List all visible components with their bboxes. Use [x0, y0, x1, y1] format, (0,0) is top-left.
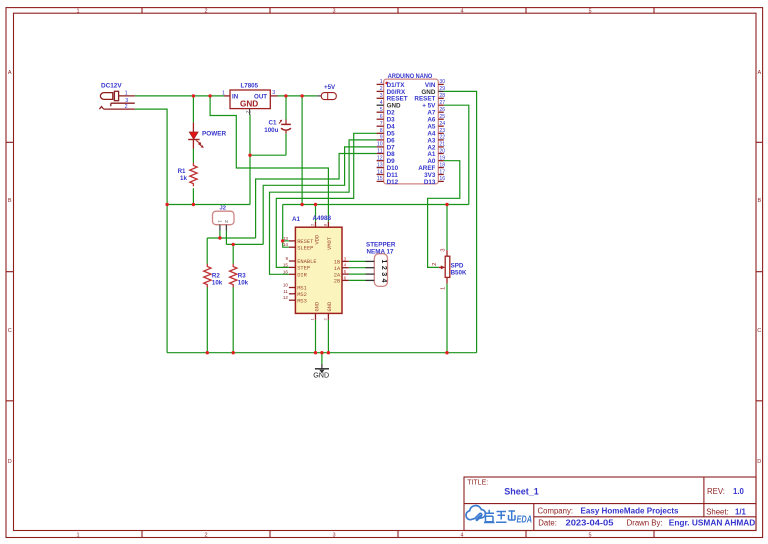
wire D5 to STEP: [276, 133, 376, 267]
wire D6 to DIR: [270, 140, 377, 274]
svg-text:2: 2: [125, 104, 128, 110]
svg-text:J2: J2: [220, 206, 226, 212]
svg-text:B: B: [8, 198, 12, 204]
arduino pin 30 VIN: [425, 79, 445, 89]
svg-text:1: 1: [125, 91, 128, 97]
svg-text:ENABLE: ENABLE: [297, 259, 316, 265]
svg-text:6: 6: [380, 114, 383, 120]
wire D7 to J2 pin2: [263, 147, 376, 245]
svg-text:Sheet:: Sheet:: [706, 508, 729, 517]
svg-text:4: 4: [344, 263, 347, 268]
svg-text:GND: GND: [327, 302, 333, 312]
wire arduino +5V pin to rail: [444, 105, 469, 204]
regulator U1 L7805: [222, 83, 278, 115]
svg-text:11: 11: [377, 148, 382, 154]
svg-text:2023-04-05: 2023-04-05: [566, 517, 614, 527]
junction top rail 5V feed: [300, 94, 303, 97]
arduino pin1 marker dot: [385, 82, 388, 85]
arduino pin 16 D13: [424, 176, 445, 186]
svg-text:Engr. USMAN AHMAD: Engr. USMAN AHMAD: [669, 518, 756, 527]
connector J2: [213, 206, 235, 231]
arduino pin 1 D1/TX: [377, 79, 406, 89]
svg-text:1.0: 1.0: [733, 487, 745, 496]
wire GND symbol stem: [321, 353, 323, 364]
stepper pin 2: [366, 266, 388, 270]
svg-text:STEP: STEP: [297, 266, 310, 272]
svg-text:1: 1: [380, 259, 387, 263]
svg-text:12: 12: [283, 295, 289, 300]
svg-text:+ 5V: + 5V: [422, 103, 436, 110]
arduino pin 19 A0: [427, 156, 445, 166]
a4988 pin DIR: [283, 269, 308, 278]
svg-text:2: 2: [245, 111, 251, 114]
svg-text:STEPPER: STEPPER: [366, 241, 396, 248]
junction top rail VMOT: [208, 94, 211, 97]
wire C1 bottom to regulator GND: [250, 134, 286, 156]
svg-text:30: 30: [439, 79, 445, 85]
arduino pin 12 D9: [377, 156, 396, 166]
svg-text:3: 3: [344, 256, 347, 261]
svg-text:3: 3: [380, 93, 383, 99]
connector P1 STEPPER NEMA17: [366, 241, 396, 286]
svg-text:D: D: [8, 459, 12, 465]
arduino pin 8 D5: [377, 128, 396, 138]
arduino pin 2 D0/RX: [377, 86, 406, 96]
svg-text:EDA: EDA: [517, 514, 533, 526]
svg-text:VMOT: VMOT: [327, 236, 333, 250]
svg-text:D: D: [757, 459, 761, 465]
svg-text:B50K: B50K: [451, 270, 467, 277]
arduino pin 10 D7: [377, 142, 396, 152]
arduino pin 29 GND: [421, 86, 445, 96]
wire left GND rail: [167, 204, 250, 206]
svg-text:A1: A1: [292, 216, 301, 223]
a4988 pin 2A: [334, 269, 349, 278]
svg-text:11: 11: [283, 289, 288, 294]
wire LED to R1: [192, 149, 194, 163]
stepper pin 4: [366, 279, 388, 283]
svg-text:A7: A7: [427, 110, 436, 117]
svg-text:10k: 10k: [212, 280, 223, 287]
wire R1 bottom to GND rail: [192, 188, 194, 204]
svg-text:2: 2: [223, 220, 229, 223]
a4988 pin 1A: [334, 263, 349, 272]
svg-text:D13: D13: [424, 179, 436, 186]
svg-text:VIN: VIN: [425, 82, 436, 89]
svg-text:A5: A5: [427, 124, 436, 131]
wire pot pin3 to 5V rail: [446, 205, 448, 251]
junction bottom rail pot1: [445, 351, 448, 354]
pot pin 1: [446, 277, 448, 283]
wire bottom ground rail: [167, 352, 477, 354]
svg-text:GND: GND: [240, 100, 258, 109]
svg-text:GND: GND: [313, 371, 329, 380]
a4988 pin GND2: [323, 302, 334, 321]
wire R3 bottom: [232, 287, 234, 353]
svg-text:22: 22: [439, 135, 445, 141]
svg-text:2: 2: [380, 266, 387, 270]
svg-text:8: 8: [380, 128, 383, 134]
svg-text:4: 4: [380, 100, 383, 106]
svg-text:2: 2: [432, 263, 438, 266]
arduino pin 5 D2: [377, 107, 396, 117]
arduino pin 25 A6: [427, 114, 445, 124]
arduino pin 23 A4: [427, 128, 445, 138]
svg-text:3: 3: [272, 90, 275, 96]
wire 1B to stepper: [349, 260, 366, 262]
wire +5V rail to RESET/SLEEP: [283, 205, 289, 248]
arduino pin 28 RESET: [414, 93, 445, 103]
svg-text:29: 29: [439, 86, 445, 92]
wire 12V to VMOT route: [210, 96, 328, 222]
svg-text:A1: A1: [427, 151, 436, 158]
svg-text:13: 13: [283, 236, 289, 241]
wire J2 pin2 rail: [226, 243, 263, 245]
connector J1 DC jack: [99, 83, 134, 110]
arduino pin 18 AREF: [418, 162, 445, 172]
arduino pin 6 D3: [377, 114, 396, 124]
svg-text:GND: GND: [314, 302, 320, 312]
wire 1A to stepper: [349, 267, 366, 269]
svg-text:REV:: REV:: [707, 487, 725, 496]
svg-text:B: B: [757, 198, 761, 204]
svg-text:21: 21: [439, 142, 445, 148]
arduino pin 7 D4: [377, 121, 396, 131]
junction top rail LED: [192, 94, 195, 97]
wire +5V feed down to 5V rail: [301, 96, 303, 205]
junction J2 pin2 R3: [232, 243, 235, 246]
svg-text:SLEEP: SLEEP: [297, 245, 313, 251]
svg-text:16: 16: [439, 176, 445, 182]
svg-text:NEMA 17: NEMA 17: [367, 248, 395, 255]
junction GND rail jack: [165, 203, 168, 206]
junction 5V rail pot3: [445, 203, 448, 206]
title block: [464, 477, 756, 531]
junction bottom rail R3: [232, 351, 235, 354]
arduino pin 21 A2: [427, 142, 445, 152]
LED POWER: [188, 123, 226, 149]
IC U2 ARDUINO NANO: [377, 74, 446, 186]
svg-text:14: 14: [283, 242, 289, 247]
IC A1 A4988: [283, 215, 349, 321]
a4988 pin MS3: [283, 295, 307, 304]
resistor R2: [204, 264, 223, 287]
wire A4988 GND1 down: [315, 320, 317, 353]
svg-text:1: 1: [76, 8, 79, 14]
junction 5V rail VDD: [314, 203, 317, 206]
wire pot pin1 down: [446, 284, 448, 353]
arduino pin 9 D6: [377, 135, 396, 145]
svg-text:7: 7: [380, 121, 383, 127]
svg-text:15: 15: [377, 176, 383, 182]
a4988 pin 1B: [334, 256, 349, 265]
svg-text:1k: 1k: [180, 175, 187, 182]
junction bottom rail A4988 GND1: [314, 351, 317, 354]
wire R3 top: [232, 244, 234, 264]
wire 2A to stepper: [349, 273, 366, 275]
svg-text:27: 27: [439, 100, 445, 106]
svg-text:D4: D4: [387, 124, 396, 131]
wire regulator GND column: [249, 115, 251, 205]
arduino pin 26 A7: [427, 107, 445, 117]
svg-text:D3: D3: [387, 117, 396, 124]
arduino pin 24 A5: [427, 121, 445, 131]
svg-text:17: 17: [439, 169, 445, 175]
wire A4988 GND2 down: [327, 320, 329, 353]
svg-text:9: 9: [285, 256, 288, 261]
svg-text:3: 3: [380, 272, 387, 276]
svg-text:GND: GND: [387, 103, 401, 110]
arduino pin 20 A1: [427, 148, 445, 158]
arduino pin 17 3V3: [424, 169, 445, 179]
arduino pin 3 RESET: [377, 93, 408, 103]
svg-text:C1: C1: [269, 119, 277, 126]
svg-text:D8: D8: [387, 151, 396, 158]
svg-text:1B: 1B: [334, 260, 341, 266]
wire D8 to J2 pin1: [256, 154, 377, 239]
svg-text:D2: D2: [387, 110, 396, 117]
svg-text:1A: 1A: [334, 266, 341, 272]
stepper pin 1: [366, 259, 388, 263]
svg-text:15: 15: [283, 262, 289, 267]
svg-text:Company:: Company:: [538, 506, 574, 515]
svg-text:2: 2: [204, 8, 207, 14]
svg-text:26: 26: [439, 107, 445, 113]
resistor R3: [230, 264, 249, 287]
svg-text:24: 24: [439, 121, 445, 127]
svg-text:C: C: [8, 328, 12, 334]
svg-text:+5V: +5V: [324, 84, 336, 91]
wire R2 top: [206, 238, 208, 264]
svg-text:9: 9: [380, 135, 383, 141]
arduino pin 13 D10: [377, 162, 399, 172]
svg-text:3: 3: [332, 8, 335, 14]
wire J2 pin1 rail: [207, 237, 255, 239]
svg-text:MS3: MS3: [297, 298, 307, 304]
svg-text:2: 2: [380, 86, 383, 92]
svg-text:1: 1: [222, 90, 225, 96]
stepper pin 3: [366, 272, 388, 276]
svg-text:100u: 100u: [264, 127, 278, 134]
a4988 pin RESET: [283, 236, 314, 245]
wire arduino A0 to pot wiper: [428, 161, 460, 268]
svg-text:18: 18: [439, 162, 445, 168]
junction top rail C1: [284, 94, 287, 97]
frame top ticks: [142, 8, 654, 14]
svg-text:1: 1: [380, 79, 383, 85]
svg-text:SPD: SPD: [451, 263, 464, 270]
arduino pin 27 +5V: [422, 100, 445, 110]
svg-text:C: C: [757, 328, 761, 334]
wire J2 pin2 lead: [225, 231, 227, 245]
svg-text:POWER: POWER: [202, 130, 227, 137]
potentiometer R4 SPD B50K: [432, 248, 467, 290]
wire jack pin2 to ground rail: [135, 109, 167, 353]
arduino pin 15 D12: [377, 176, 399, 186]
a4988 pin GND1: [310, 302, 321, 321]
svg-text:DIR: DIR: [297, 273, 307, 279]
svg-text:14: 14: [377, 169, 383, 175]
frame bottom ticks: [142, 531, 654, 538]
svg-text:TITLE:: TITLE:: [467, 479, 488, 486]
svg-text:A: A: [757, 70, 761, 76]
svg-text:20: 20: [439, 148, 445, 154]
svg-text:D1/TX: D1/TX: [387, 82, 406, 89]
wire C1 top lead: [285, 96, 287, 120]
pot pin 3: [446, 250, 448, 256]
svg-text:Sheet_1: Sheet_1: [504, 487, 539, 497]
svg-text:12: 12: [377, 156, 383, 162]
svg-text:4: 4: [380, 279, 387, 283]
a4988 pin 2B: [334, 275, 349, 284]
svg-text:MS1: MS1: [297, 286, 307, 292]
junction regulator GND C1: [248, 154, 251, 157]
svg-text:5: 5: [380, 107, 383, 113]
svg-text:IN: IN: [232, 94, 239, 101]
svg-text:25: 25: [439, 114, 445, 120]
svg-text:28: 28: [439, 93, 445, 99]
svg-text:R1: R1: [178, 168, 186, 175]
svg-text:R2: R2: [212, 273, 220, 280]
a4988 pin ENABLE: [285, 256, 316, 265]
resistor R1: [178, 163, 197, 186]
arduino pin 14 D11: [377, 169, 399, 179]
svg-text:16: 16: [283, 269, 289, 274]
wire 12V rail jack to regulator IN: [135, 95, 224, 97]
svg-text:2: 2: [204, 532, 207, 538]
wire R2 bottom: [206, 287, 208, 353]
svg-text:4: 4: [460, 532, 463, 538]
svg-text:ARDUINO NANO: ARDUINO NANO: [388, 74, 433, 80]
svg-text:Easy HomeMade Projects: Easy HomeMade Projects: [581, 506, 679, 515]
svg-text:A6: A6: [427, 117, 436, 124]
arduino pin 22 A3: [427, 135, 445, 145]
svg-text:3: 3: [332, 532, 335, 538]
svg-text:1: 1: [216, 220, 222, 223]
svg-text:1: 1: [76, 532, 79, 538]
ground symbol GND: [313, 364, 329, 380]
wire VDD pin to 5V rail: [315, 205, 317, 222]
junction bottom rail A4988 GND2: [327, 351, 330, 354]
svg-text:13: 13: [377, 162, 383, 168]
a4988 pin MS2: [283, 289, 307, 298]
svg-text:RESET: RESET: [297, 239, 314, 245]
svg-text:5: 5: [588, 8, 591, 14]
svg-text:6: 6: [344, 275, 347, 280]
svg-text:MS2: MS2: [297, 292, 307, 298]
svg-text:4: 4: [460, 8, 463, 14]
svg-text:A4988: A4988: [313, 215, 332, 222]
junction RESET SLEEP: [281, 239, 284, 242]
a4988 pin STEP: [283, 262, 310, 271]
arduino pin 4 GND: [377, 100, 401, 110]
svg-text:A: A: [8, 70, 12, 76]
svg-text:23: 23: [439, 128, 445, 134]
junction GND rail R1: [192, 203, 195, 206]
junction bottom rail GND symbol: [320, 351, 323, 354]
svg-text:2B: 2B: [334, 279, 341, 285]
svg-text:Date:: Date:: [538, 518, 557, 527]
a4988 pin SLEEP: [283, 242, 314, 251]
frame right ticks: [756, 142, 763, 401]
svg-text:10: 10: [377, 142, 383, 148]
junction J2 pin1: [218, 236, 221, 239]
svg-text:L7805: L7805: [241, 83, 259, 90]
a4988 pin MS1: [283, 283, 307, 292]
svg-text:19: 19: [439, 156, 445, 162]
capacitor C1: [264, 119, 291, 134]
svg-text:1: 1: [441, 287, 447, 290]
svg-text:1/1: 1/1: [735, 508, 747, 517]
wire LED top: [192, 96, 194, 123]
wire 2B to stepper: [349, 279, 366, 281]
pot pin 2 wiper arrow: [439, 266, 443, 268]
wire regulator OUT to +5V flag: [278, 95, 317, 97]
svg-text:D12: D12: [387, 179, 399, 186]
junction 5V rail feed: [300, 203, 303, 206]
svg-text:VDD: VDD: [314, 235, 320, 245]
wire arduino GND pin down: [444, 91, 477, 352]
svg-text:10k: 10k: [238, 280, 249, 287]
wire +5V rail: [283, 204, 469, 206]
junction bottom rail R2: [206, 351, 209, 354]
frame left ticks: [6, 142, 14, 401]
svg-text:5: 5: [588, 532, 591, 538]
power flag +5V: [317, 84, 336, 100]
svg-text:Drawn By:: Drawn By:: [627, 518, 663, 527]
wire J2 pin1 lead: [219, 231, 221, 239]
a4988 pin VMOT: [322, 222, 333, 250]
a4988 pin VDD: [310, 222, 321, 245]
svg-text:DC12V: DC12V: [101, 83, 122, 90]
svg-text:10: 10: [283, 283, 289, 288]
arduino pin 11 D8: [377, 148, 396, 158]
svg-text:R3: R3: [238, 273, 246, 280]
EasyEDA logo: [466, 506, 532, 526]
svg-text:A3: A3: [427, 137, 436, 144]
svg-text:5: 5: [344, 269, 347, 274]
svg-text:2A: 2A: [334, 272, 341, 278]
svg-text:D6: D6: [387, 137, 396, 144]
